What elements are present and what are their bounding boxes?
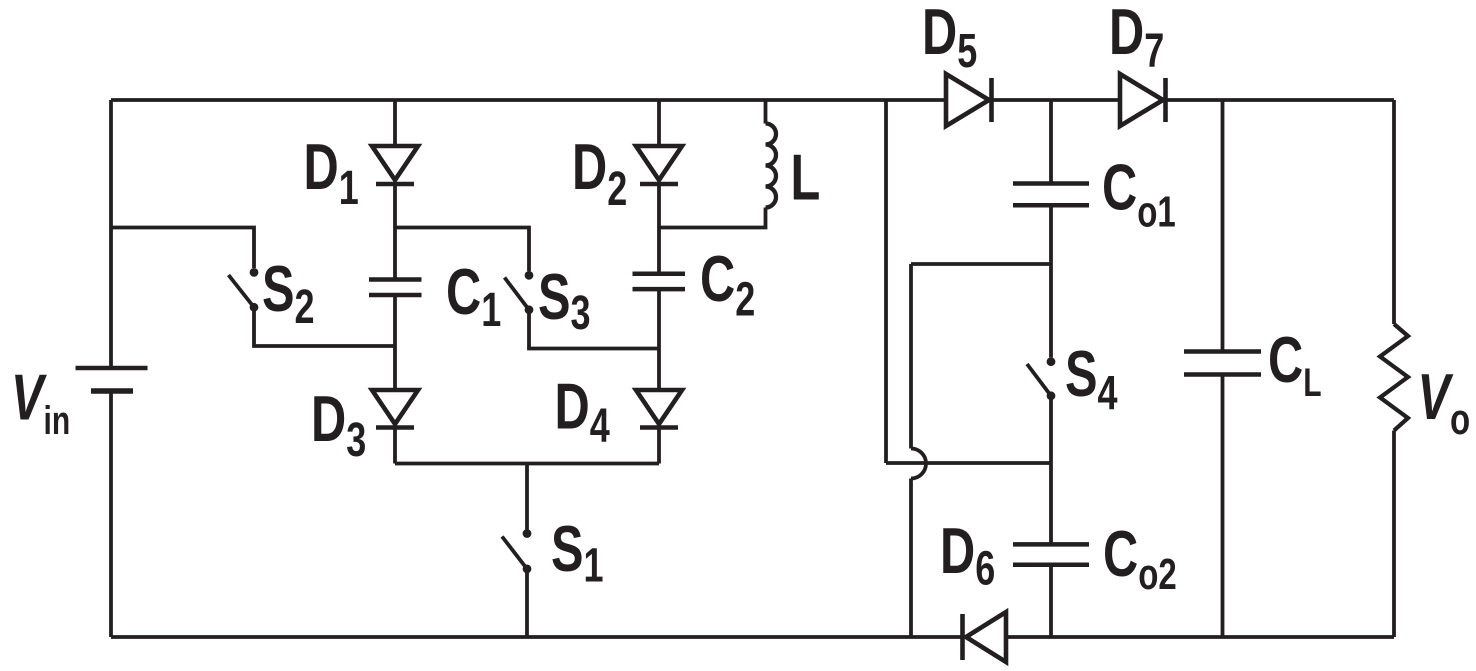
label D1 (304, 131, 359, 214)
wire S4 blade (1027, 364, 1051, 396)
node S2 top dot (250, 268, 259, 277)
node S1 bottom dot (523, 565, 532, 574)
wire Co2 bottom (1049, 565, 1053, 637)
wire hop column lower (909, 479, 913, 638)
wire node A vertical (884, 100, 888, 463)
wire Co1 top (1049, 100, 1053, 184)
wire left edge upper (109, 100, 113, 366)
svg-text:S1: S1 (551, 513, 604, 591)
wire right edge lower (1392, 431, 1396, 638)
wire D2 column top (657, 100, 661, 146)
battery Vin long plate (76, 366, 148, 371)
wire D1 column top (393, 100, 397, 146)
svg-text:C2: C2 (700, 243, 755, 325)
wire node to S3 (395, 228, 529, 272)
node S1 top dot (523, 529, 532, 538)
label Co2 (1103, 518, 1177, 599)
node S4 top dot (1047, 357, 1056, 366)
wire D1 to C1 (393, 184, 397, 280)
label S1 (551, 513, 604, 591)
svg-text:Co1: Co1 (1102, 152, 1176, 237)
label C2 (700, 243, 755, 325)
wire S1 blade (502, 537, 527, 569)
diode D3 (372, 390, 418, 424)
wire bottom rail left (111, 635, 962, 639)
svg-text:D3: D3 (311, 383, 366, 466)
svg-text:Vin: Vin (11, 362, 70, 443)
wire C1 to D3 (393, 295, 397, 390)
capacitor Co1 (1013, 184, 1089, 206)
wire bridge bottom (395, 462, 659, 466)
svg-text:D4: D4 (555, 371, 611, 452)
wire hop column upper (909, 264, 913, 449)
wire S3 bottom (529, 310, 659, 349)
diode D7 (1120, 74, 1163, 126)
label D4 (555, 371, 611, 452)
diode D2 (636, 146, 682, 180)
diode D1 (372, 146, 418, 180)
svg-text:Vo: Vo (1418, 361, 1471, 444)
wire Co1 bottom horizontal (911, 262, 1051, 266)
label Vo (1418, 361, 1471, 444)
wire D4 to bridge (657, 428, 661, 464)
label CL (1268, 324, 1322, 405)
wire bottom rail right (1006, 635, 1394, 639)
battery Vin short plate (91, 388, 133, 394)
label Co1 (1102, 152, 1176, 237)
wire top rail mid (992, 98, 1121, 102)
wire S1 bottom (525, 569, 529, 637)
svg-text:D7: D7 (1109, 0, 1164, 77)
label C1 (446, 256, 501, 336)
wire L bottom (659, 208, 766, 228)
node S3 top dot (525, 271, 534, 280)
wire Co1 to S4 (1049, 205, 1053, 357)
svg-text:S3: S3 (538, 261, 591, 339)
label S4 (1065, 338, 1118, 419)
diode D4 (636, 390, 682, 424)
svg-text:C1: C1 (446, 256, 501, 336)
svg-text:Co2: Co2 (1103, 518, 1177, 599)
label S2 (262, 253, 315, 333)
label Vin (11, 362, 70, 443)
svg-text:D6: D6 (940, 515, 995, 594)
label S3 (538, 261, 591, 339)
wire D3 to bridge (393, 428, 397, 464)
capacitor C2 (633, 274, 686, 289)
diode D6 (966, 612, 1006, 662)
label L (791, 142, 821, 214)
wire top rail left (111, 98, 946, 102)
label D5 (922, 0, 977, 77)
wire left edge lower (109, 393, 113, 637)
wire node A horizontal (886, 461, 1051, 465)
wire top rail right (1166, 98, 1395, 102)
svg-text:S4: S4 (1065, 338, 1118, 419)
wire S3 blade (505, 278, 530, 310)
wire S2 bottom (254, 307, 395, 346)
svg-text:D1: D1 (304, 131, 359, 214)
node S4 bottom dot (1047, 391, 1056, 400)
wire S2 top horizontal (111, 228, 254, 269)
label D7 (1109, 0, 1164, 77)
label D2 (572, 131, 627, 215)
wire S2 blade (229, 275, 255, 307)
diode D5 (946, 74, 989, 126)
wire hop arc (911, 449, 926, 479)
capacitor CL (1184, 352, 1261, 375)
wire C2 to D4 (657, 289, 661, 390)
svg-text:D2: D2 (572, 131, 627, 215)
capacitor C1 (369, 280, 422, 296)
label D6 (940, 515, 995, 594)
wire S4 to Co2 (1049, 396, 1053, 545)
svg-text:L: L (791, 142, 821, 214)
wire S1 top (525, 464, 529, 530)
node S2 bottom dot (250, 303, 259, 312)
capacitor Co2 (1013, 544, 1089, 564)
svg-text:D5: D5 (922, 0, 977, 77)
wire CL top (1221, 100, 1225, 352)
wire right edge upper (1392, 100, 1396, 324)
svg-text:S2: S2 (262, 253, 315, 333)
inductor L (766, 124, 777, 208)
svg-text:CL: CL (1268, 324, 1322, 405)
wire CL bottom (1221, 375, 1225, 638)
wire L top (764, 100, 768, 124)
wire D2 to C2 (657, 184, 661, 274)
label D3 (311, 383, 366, 466)
resistor Vo (1380, 324, 1408, 431)
node S3 bottom dot (525, 305, 534, 314)
